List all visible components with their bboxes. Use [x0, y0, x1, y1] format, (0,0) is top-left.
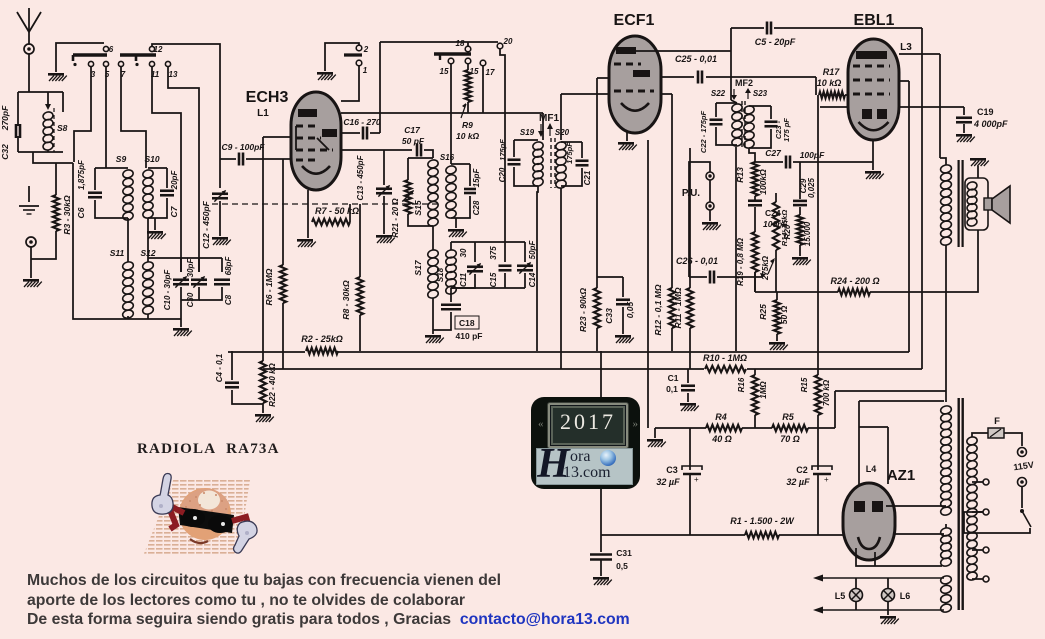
wire [467, 102, 469, 113]
wire [779, 534, 843, 536]
svg-text:30: 30 [459, 248, 468, 257]
svg-text:R12 - 0,1 MΩ: R12 - 0,1 MΩ [653, 284, 663, 335]
svg-text:32 µF: 32 µF [786, 477, 810, 487]
wire [977, 166, 979, 178]
svg-text:C17: C17 [404, 125, 421, 135]
wire [887, 601, 889, 615]
resistor R12 [669, 288, 675, 328]
tube EBL1 [848, 39, 899, 140]
svg-text:C3: C3 [666, 465, 678, 475]
wire [687, 369, 689, 383]
wire [560, 188, 562, 369]
cartoon mascot [140, 467, 270, 562]
wire [749, 148, 755, 162]
capacitor C31 [590, 555, 612, 560]
ground [297, 239, 316, 247]
wire [220, 158, 236, 160]
svg-text:100pF: 100pF [800, 150, 825, 160]
svg-text:4 000pF: 4 000pF [973, 119, 1008, 129]
wire [661, 93, 672, 95]
trimmer C10 [173, 280, 189, 285]
wire [451, 196, 470, 218]
wire [749, 105, 771, 107]
svg-text:410 pF: 410 pF [456, 331, 483, 341]
resistor R21 (adj) [405, 180, 411, 214]
speed-line hatched background [143, 478, 250, 556]
wire [817, 95, 819, 375]
wire [749, 129, 771, 148]
svg-text:ECF1: ECF1 [614, 12, 655, 29]
capacitor C32 [16, 124, 20, 138]
wire [432, 298, 434, 305]
wire [467, 42, 469, 46]
wire [596, 328, 598, 351]
wire [887, 427, 889, 484]
wire [537, 186, 538, 351]
wire [408, 157, 433, 159]
switch contact 5 [103, 61, 108, 66]
wire [858, 401, 860, 501]
wire [1004, 433, 1022, 446]
switch contact 13 [165, 61, 170, 66]
ground [19, 206, 39, 214]
svg-text:C5 - 20pF: C5 - 20pF [755, 37, 796, 47]
resistor R10 [704, 362, 747, 376]
resistor R22 [260, 361, 266, 403]
capacitor C25 [698, 71, 702, 84]
svg-text:10 kΩ: 10 kΩ [456, 131, 480, 141]
wire [689, 474, 691, 535]
svg-text:R10 - 1MΩ: R10 - 1MΩ [703, 353, 747, 363]
wire [963, 107, 965, 115]
wire [561, 168, 582, 186]
resistor R16 [752, 375, 758, 415]
wire [94, 168, 96, 190]
svg-text:1: 1 [363, 66, 368, 75]
wire [31, 231, 56, 259]
P.U. jack [706, 202, 714, 210]
svg-text:30pF: 30pF [186, 258, 195, 278]
capacitor C7 [160, 191, 174, 196]
wire [972, 481, 983, 483]
wire [709, 210, 711, 221]
arrow MF2 [747, 89, 749, 99]
svg-text:C21: C21 [583, 170, 592, 185]
svg-text:S8: S8 [57, 123, 68, 133]
coil S8 [42, 111, 54, 151]
svg-text:S22: S22 [711, 89, 726, 98]
svg-text:6: 6 [109, 45, 114, 54]
svg-text:C16 - 270: C16 - 270 [343, 117, 381, 127]
wire [815, 77, 817, 95]
wire [899, 80, 909, 82]
capacitor C21 [576, 161, 589, 166]
wire [433, 312, 451, 330]
svg-text:EBL1: EBL1 [854, 12, 895, 29]
wire [755, 161, 783, 163]
capacitor C26 [710, 271, 714, 284]
wire [647, 140, 649, 428]
switch contact 6 [103, 46, 108, 51]
svg-text:115V: 115V [1013, 460, 1035, 473]
svg-text:0,025: 0,025 [807, 177, 816, 198]
wire [432, 305, 434, 334]
wire [754, 207, 756, 232]
ground [956, 134, 975, 142]
wire [754, 272, 756, 292]
wire [754, 415, 756, 428]
lamp L5 [850, 589, 863, 602]
svg-text:68pF: 68pF [224, 256, 233, 276]
wire [524, 273, 526, 288]
wire [870, 291, 909, 293]
ground [880, 616, 899, 624]
svg-text:R22 - 40 kΩ: R22 - 40 kΩ [268, 362, 277, 406]
variable capacitor C12 [212, 194, 228, 199]
head ball [179, 488, 231, 540]
wire [626, 132, 628, 141]
coil S20 [555, 141, 567, 189]
svg-text:20: 20 [503, 37, 513, 46]
wire [307, 190, 309, 222]
svg-text:R25: R25 [758, 304, 768, 320]
capacitor C33 [616, 300, 630, 305]
wire [921, 28, 923, 369]
ground [48, 73, 67, 81]
wire [597, 77, 609, 79]
svg-text:C1: C1 [668, 373, 679, 383]
svg-text:C8: C8 [224, 294, 233, 305]
tube AZ1 [843, 483, 895, 560]
wire [632, 50, 731, 52]
resistor R20 [797, 215, 803, 245]
transformer mains primary [966, 436, 978, 581]
wire [775, 250, 777, 292]
svg-text:L4: L4 [866, 464, 877, 474]
svg-text:10 kΩ: 10 kΩ [817, 78, 842, 88]
wire [450, 242, 452, 250]
wire [514, 167, 538, 186]
wire [856, 548, 942, 566]
svg-text:L1: L1 [257, 108, 269, 119]
svg-text:40 Ω: 40 Ω [711, 434, 732, 444]
svg-text:R3 - 30kΩ: R3 - 30kΩ [62, 195, 72, 235]
hora13 2017 badge [531, 397, 640, 489]
wire [939, 54, 941, 158]
wire [450, 288, 452, 294]
wire [469, 164, 471, 186]
trimmer C14 [517, 266, 533, 271]
svg-text:R8 - 30kΩ: R8 - 30kΩ [341, 280, 351, 320]
svg-text:C30: C30 [186, 292, 195, 307]
capacitor C2 [812, 466, 832, 470]
svg-text:S16: S16 [440, 153, 455, 162]
svg-text:R5: R5 [782, 412, 794, 422]
svg-text:S12: S12 [140, 248, 155, 258]
wire [407, 158, 409, 180]
svg-text:S23: S23 [753, 89, 768, 98]
resistor R4 [706, 425, 742, 431]
wire [282, 303, 284, 369]
trimmer C11 [467, 267, 483, 272]
ground [212, 237, 231, 245]
switch bar [344, 53, 362, 56]
wire [581, 141, 583, 143]
wire [380, 41, 498, 43]
lamp L6 [882, 589, 895, 602]
svg-text:C4 - 0,1: C4 - 0,1 [215, 353, 224, 382]
wire [148, 318, 181, 320]
svg-text:C28: C28 [472, 200, 481, 215]
wire [504, 273, 506, 288]
wire [963, 124, 965, 133]
wire [817, 415, 819, 428]
svg-text:S11: S11 [110, 248, 125, 258]
wire [715, 103, 717, 117]
switch contact 17 [480, 60, 486, 66]
wire [622, 307, 624, 334]
tap [983, 576, 989, 582]
core MF1 [550, 138, 552, 188]
ground [448, 229, 467, 237]
wire [561, 93, 609, 95]
wire [148, 257, 222, 259]
svg-text:C26 - 0,01: C26 - 0,01 [676, 256, 718, 266]
wire [228, 351, 909, 353]
wire [774, 27, 922, 29]
switch wafer bar [73, 53, 107, 56]
wire [909, 230, 978, 292]
wire [28, 196, 30, 202]
antenna [17, 8, 41, 44]
wire [341, 149, 412, 151]
wire [820, 106, 848, 108]
svg-text:50pF: 50pF [528, 240, 537, 260]
footer text [27, 571, 630, 630]
switch contact 7 [118, 61, 123, 66]
title RADIOLA RA73A [137, 441, 280, 458]
svg-text:R4: R4 [715, 412, 727, 422]
wire [908, 81, 910, 352]
svg-text:2: 2 [363, 45, 369, 54]
wire [808, 427, 835, 429]
arrow MF1 [540, 124, 542, 136]
wire [622, 277, 624, 297]
svg-text:MF1: MF1 [539, 113, 559, 124]
wire [775, 193, 777, 202]
resistor R24 [838, 289, 870, 295]
ground [255, 414, 274, 422]
wire [73, 163, 148, 319]
wire [892, 533, 944, 535]
coil S22 [731, 103, 743, 147]
svg-text:+: + [824, 475, 829, 484]
resistor R13 [752, 162, 758, 196]
wire [199, 287, 222, 300]
tube ECF1 [609, 36, 661, 133]
svg-text:C6: C6 [76, 207, 86, 218]
svg-text:C19: C19 [977, 107, 994, 117]
wire [859, 400, 944, 402]
svg-text:20pF: 20pF [170, 170, 179, 191]
wire [940, 158, 946, 165]
left glove pointing up [152, 474, 257, 554]
switch contact [356, 45, 362, 51]
ground [23, 279, 42, 287]
wire [945, 245, 947, 402]
capacitor C15 [499, 266, 512, 271]
wire [655, 427, 706, 429]
capacitor C24 [748, 201, 762, 206]
svg-text:AZ1: AZ1 [887, 467, 915, 484]
wire [455, 218, 457, 228]
wire [180, 258, 182, 272]
wire [855, 578, 857, 589]
capacitor C20 [508, 160, 521, 165]
wire [17, 136, 19, 152]
wire [899, 53, 940, 55]
wire [121, 66, 146, 168]
svg-text:F: F [994, 416, 1000, 427]
wire [597, 276, 623, 278]
wire [370, 132, 380, 134]
wire [33, 152, 73, 163]
coil S17 [427, 249, 439, 299]
wire [359, 204, 361, 277]
wire [231, 351, 233, 380]
wire [855, 601, 857, 610]
wire [601, 534, 745, 536]
wire [262, 137, 264, 361]
switch contact 15b [465, 58, 471, 64]
wire [874, 552, 876, 566]
wire [450, 294, 452, 302]
svg-text:R2 - 25kΩ: R2 - 25kΩ [301, 334, 343, 344]
wire [835, 390, 946, 392]
capacitor C23 [765, 122, 778, 127]
svg-text:50 Ω: 50 Ω [779, 305, 789, 324]
svg-text:R6 - 1MΩ: R6 - 1MΩ [264, 268, 274, 305]
resistor R6 [280, 265, 286, 303]
label box C18 [455, 316, 479, 329]
wire [474, 242, 476, 262]
wire [341, 132, 360, 134]
resistor R14 (volume) [773, 202, 779, 250]
tap [983, 479, 989, 485]
wire [716, 127, 737, 145]
terminal 115V [1018, 448, 1027, 457]
svg-text:S17: S17 [413, 259, 423, 275]
svg-text:700 kΩ: 700 kΩ [822, 379, 831, 406]
core [958, 160, 960, 247]
wire [596, 78, 598, 277]
svg-text:15: 15 [470, 67, 479, 76]
wire [500, 49, 505, 242]
resistor R2 [305, 344, 338, 358]
svg-text:C22 - 175pF: C22 - 175pF [699, 111, 708, 154]
resistor R7 [312, 219, 350, 225]
svg-text:C2: C2 [796, 465, 808, 475]
svg-text:R16: R16 [737, 377, 746, 392]
svg-text:17: 17 [486, 68, 495, 77]
wire [661, 76, 694, 78]
svg-text:R1 - 1.500 - 2W: R1 - 1.500 - 2W [730, 516, 795, 526]
wire [776, 291, 838, 293]
wire [263, 136, 291, 138]
wire [147, 314, 149, 319]
P.U. jack [706, 172, 714, 180]
wire [450, 133, 452, 164]
wire [152, 44, 220, 188]
wire [28, 54, 30, 92]
wire [524, 242, 526, 262]
svg-text:50 pF: 50 pF [402, 136, 425, 146]
capacitor C28 [464, 189, 476, 193]
ground [792, 257, 811, 265]
capacitor C16 [363, 127, 367, 140]
wire [180, 287, 182, 316]
wire [899, 106, 964, 108]
wire [730, 51, 732, 100]
wire [600, 560, 602, 576]
ground [147, 231, 166, 239]
resistor R3 [53, 195, 59, 231]
wire [709, 180, 711, 202]
wire [30, 247, 32, 278]
resistor R17 [819, 92, 845, 98]
switch wafer bar 2 [120, 53, 156, 56]
svg-text:100kΩ: 100kΩ [758, 169, 768, 195]
wire [754, 272, 756, 292]
svg-text:S20: S20 [555, 128, 570, 137]
wire [219, 201, 221, 236]
ground [970, 158, 989, 166]
svg-text:C10 - 30pF: C10 - 30pF [163, 269, 172, 311]
switch contact 3 [88, 61, 93, 66]
wire [731, 27, 764, 29]
output transformer secondary [966, 181, 978, 227]
ground [425, 335, 444, 343]
wire [451, 163, 470, 165]
fuse F [988, 428, 1004, 438]
wire [872, 140, 874, 170]
svg-text:C11: C11 [459, 272, 468, 287]
svg-text:R13: R13 [735, 167, 745, 183]
wire [689, 148, 691, 288]
resistor R23 [594, 288, 600, 328]
svg-text:C7: C7 [169, 205, 179, 217]
wire [95, 167, 128, 169]
ground [702, 222, 721, 230]
svg-text:R11 - 1MΩ: R11 - 1MΩ [673, 287, 683, 328]
wire [964, 512, 1030, 533]
core S8 [53, 108, 55, 152]
wire [600, 351, 602, 397]
svg-text:L5: L5 [835, 591, 846, 601]
svg-text:R24 - 200 Ω: R24 - 200 Ω [830, 276, 879, 286]
wire [95, 200, 128, 218]
wire [972, 549, 983, 551]
wire [687, 393, 689, 402]
wire [383, 150, 385, 185]
wire [451, 274, 475, 288]
svg-text:R17: R17 [823, 67, 841, 77]
wire [166, 168, 168, 188]
pickup jack [26, 237, 36, 247]
mains switch [1020, 509, 1024, 513]
wiper arrow [768, 260, 774, 274]
resistor R5 [772, 425, 808, 431]
